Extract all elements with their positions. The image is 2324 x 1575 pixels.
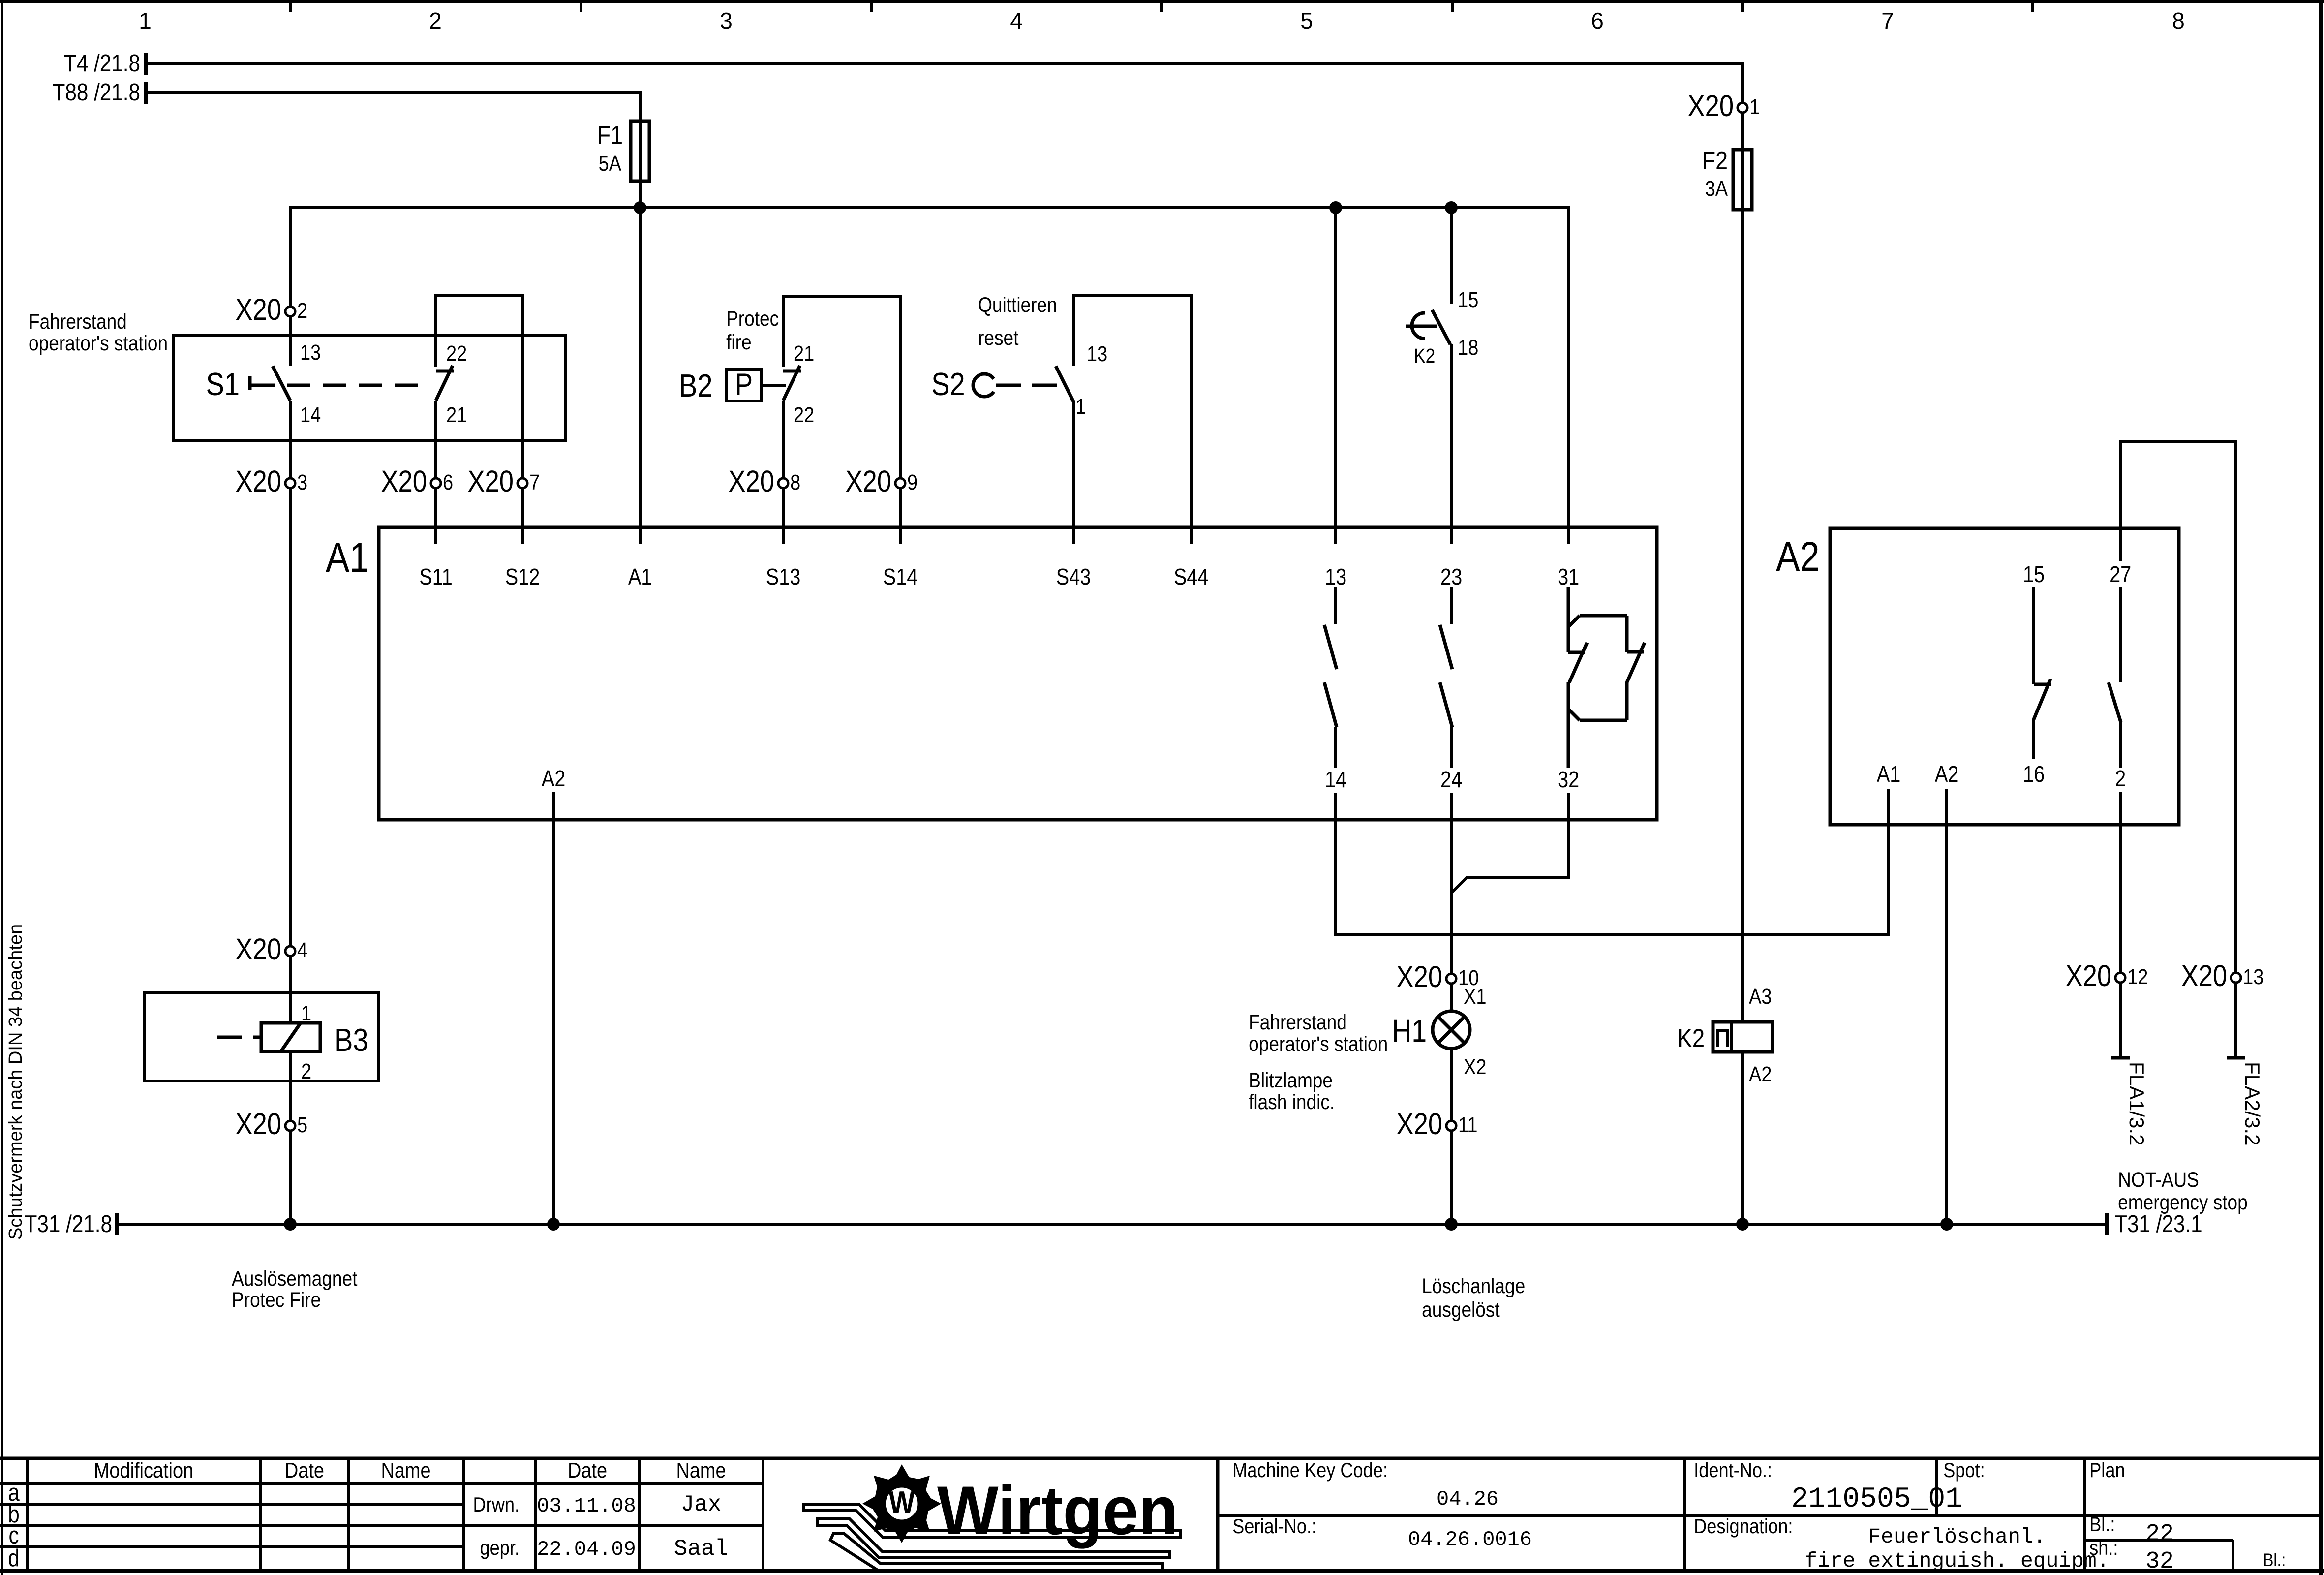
svg-text:13: 13 [1325, 564, 1346, 589]
K2 NC contact 15/18 lead from bus [1450, 214, 1453, 304]
svg-text:2: 2 [297, 298, 307, 322]
svg-text:Protec Fire: Protec Fire [232, 1288, 321, 1311]
svg-text:23: 23 [1440, 564, 1462, 589]
A1 internal contact 13/14 [1324, 587, 1337, 768]
wire X20:2 to S1 contact [289, 317, 292, 366]
svg-text:X20: X20 [1397, 960, 1443, 994]
wire S1 NC contact to X20:6 [434, 401, 437, 477]
wire X20:4 to B3 [289, 957, 292, 1023]
svg-text:11: 11 [1458, 1112, 1477, 1137]
svg-text:8: 8 [790, 470, 800, 494]
svg-text:A2: A2 [1935, 762, 1959, 787]
page border top [0, 0, 2324, 3]
page border bottom [0, 1569, 2324, 1573]
A1 internal changeover contact 31/32 [1568, 587, 1645, 768]
svg-text:FLA1/3.2: FLA1/3.2 [2125, 1062, 2148, 1145]
wire T4 down to X20:1 [1741, 62, 1744, 102]
svg-text:sh.:: sh.: [2089, 1537, 2118, 1560]
svg-text:04.26.0016: 04.26.0016 [1408, 1528, 1532, 1551]
net T4 terminal tick [144, 53, 148, 75]
S1 NO contact blade [273, 366, 290, 401]
svg-text:S13: S13 [766, 564, 801, 589]
wire X20:6 to A1 S11 [434, 489, 437, 544]
svg-text:Date: Date [285, 1458, 324, 1482]
svg-text:W: W [889, 1484, 916, 1520]
svg-text:24: 24 [1440, 767, 1462, 792]
svg-text:Date: Date [568, 1458, 607, 1482]
svg-text:A2: A2 [1749, 1062, 1772, 1086]
svg-text:flash indic.: flash indic. [1249, 1090, 1335, 1113]
junction dot A2/T31 [547, 1218, 560, 1231]
svg-text:Löschanlage: Löschanlage [1422, 1274, 1525, 1297]
svg-text:Spot:: Spot: [1943, 1459, 1985, 1482]
svg-text:21: 21 [794, 341, 814, 365]
svg-text:Feuerlöschanl.: Feuerlöschanl. [1868, 1525, 2046, 1549]
svg-text:X2: X2 [1464, 1054, 1486, 1079]
junction dot F1/bus [634, 201, 646, 214]
svg-text:13: 13 [1087, 341, 1107, 366]
svg-text:K2: K2 [1414, 345, 1435, 368]
svg-text:A1: A1 [326, 534, 369, 581]
K2 contact actuator line [1406, 325, 1437, 328]
svg-text:S44: S44 [1174, 564, 1209, 589]
wire T88 down to F1 [639, 91, 642, 208]
wire X20:8 to A1 S13 [782, 489, 785, 544]
svg-text:27: 27 [2110, 562, 2131, 587]
svg-text:Fahrerstand: Fahrerstand [1249, 1010, 1347, 1034]
svg-text:21: 21 [446, 402, 467, 427]
svg-text:B3: B3 [335, 1022, 368, 1058]
svg-text:X20: X20 [1688, 89, 1734, 123]
svg-text:A2: A2 [542, 766, 566, 791]
solenoid B3 enclosure box [144, 993, 378, 1081]
svg-text:NOT-AUS: NOT-AUS [2118, 1168, 2199, 1191]
svg-text:22.04.09: 22.04.09 [537, 1538, 636, 1561]
svg-text:A1: A1 [628, 564, 652, 589]
wire X20:5 to T31 bus [289, 1132, 292, 1224]
svg-text:Wirtgen: Wirtgen [937, 1472, 1178, 1549]
junction dot B3/T31 [284, 1218, 297, 1231]
svg-text:gepr.: gepr. [480, 1537, 520, 1560]
svg-text:ausgelöst: ausgelöst [1422, 1297, 1500, 1321]
svg-text:1: 1 [1749, 94, 1760, 119]
wire T4 rail [146, 62, 1743, 65]
switch S1 enclosure box [173, 336, 566, 440]
svg-text:reset: reset [978, 326, 1018, 349]
wire bus down to X20:2 [289, 206, 292, 306]
svg-text:16: 16 [2023, 762, 2045, 787]
svg-text:T31 /23.1: T31 /23.1 [2114, 1210, 2202, 1237]
svg-text:B2: B2 [679, 368, 713, 403]
wire bus to contact 13 column [1334, 208, 1337, 544]
wire S1 contact to X20:3 [289, 401, 292, 477]
svg-text:Name: Name [676, 1458, 726, 1482]
svg-text:F1: F1 [597, 121, 623, 150]
svg-text:7: 7 [1881, 8, 1894, 33]
svg-text:8: 8 [2172, 8, 2185, 33]
svg-text:S12: S12 [505, 564, 540, 589]
FLA1 end bar [2111, 1056, 2130, 1060]
wire B2 contact to X20:8 [782, 401, 785, 477]
svg-text:04.26: 04.26 [1437, 1487, 1498, 1511]
svg-text:X20: X20 [381, 464, 427, 498]
svg-text:Name: Name [381, 1458, 430, 1482]
A2 internal NC contact 15/16 [2034, 587, 2051, 759]
wire 32 inside box [1567, 793, 1570, 820]
S2 actuator head arc [973, 374, 994, 397]
junction dot bus/contact23 column [1445, 201, 1458, 214]
svg-text:Blitzlampe: Blitzlampe [1249, 1068, 1333, 1092]
svg-text:X20: X20 [235, 932, 281, 966]
wire X20:13 to FLA2 [2234, 984, 2237, 1057]
svg-text:d: d [8, 1544, 19, 1572]
svg-text:Machine Key Code:: Machine Key Code: [1232, 1459, 1388, 1482]
S1 actuator T-bar [248, 376, 252, 390]
wire F2 down to K2 coil [1741, 210, 1744, 1022]
junction dot H1/T31 [1445, 1218, 1458, 1231]
wire K2 coil to T31 [1741, 1052, 1744, 1224]
B2 link line [761, 384, 786, 387]
wire X20:10 to lamp H1 [1450, 985, 1453, 1012]
svg-text:F2: F2 [1702, 147, 1728, 175]
svg-text:1: 1 [1075, 394, 1086, 418]
wire A2 coil A2 down to T31 [1945, 789, 1948, 1224]
svg-text:T31 /21.8: T31 /21.8 [25, 1210, 112, 1237]
svg-text:22: 22 [794, 402, 814, 427]
wire X20:11 to T31 [1450, 1132, 1453, 1224]
svg-text:X20: X20 [467, 464, 514, 498]
svg-text:H1: H1 [1392, 1013, 1427, 1049]
fuse F1 [631, 121, 649, 181]
net T31 left terminal tick [115, 1213, 119, 1235]
svg-text:X20: X20 [235, 1107, 281, 1141]
wire main top bus [290, 206, 1568, 209]
B2 NC contact fixed tick [783, 370, 801, 373]
S1 NC contact fixed tick [436, 370, 454, 373]
Wirtgen logo gear [862, 1464, 941, 1543]
relay coil K2 [1713, 1022, 1773, 1052]
svg-text:X20: X20 [235, 293, 281, 327]
svg-text:Protec: Protec [726, 307, 779, 330]
svg-text:22: 22 [446, 341, 467, 365]
wire bus right end down to A1 terminal 31 [1567, 206, 1570, 544]
svg-text:32: 32 [1558, 767, 1579, 792]
wire X20:1 to F2 [1741, 114, 1744, 210]
wire 27 loop above box [2120, 441, 2236, 972]
title block grid [0, 1458, 2319, 1571]
fuse F2 [1733, 150, 1752, 210]
B2 NC contact blade [783, 366, 800, 401]
column ruler ticks [289, 3, 2034, 12]
svg-text:Bl.:: Bl.: [2263, 1550, 2286, 1571]
B3 coil symbol [261, 1023, 320, 1051]
wire 24 column down to X20:10 [1450, 820, 1453, 973]
svg-text:Auslösemagnet: Auslösemagnet [232, 1266, 357, 1290]
pushbutton S2 loop wire [1073, 296, 1191, 544]
svg-text:1: 1 [139, 8, 152, 33]
svg-text:Quittieren: Quittieren [978, 293, 1057, 316]
svg-text:14: 14 [1325, 767, 1346, 792]
wire S2 contact to A1 S43 [1072, 401, 1075, 544]
junction dot K2/T31 [1736, 1218, 1749, 1231]
S2 NO contact blade [1056, 366, 1073, 401]
svg-text:S11: S11 [419, 564, 453, 589]
wire 14 inside box [1334, 793, 1337, 820]
svg-text:Plan: Plan [2089, 1459, 2125, 1482]
safety relay A1 box [379, 527, 1657, 820]
svg-text:S43: S43 [1056, 564, 1091, 589]
S1 actuator dashed link [251, 384, 424, 387]
junction dot A2coil/T31 [1940, 1218, 1953, 1231]
svg-text:T4 /21.8: T4 /21.8 [64, 50, 140, 77]
S1 NC contact blade [436, 366, 453, 401]
svg-text:X20: X20 [728, 464, 774, 498]
svg-text:Fahrerstand: Fahrerstand [29, 309, 127, 333]
svg-text:S1: S1 [206, 366, 240, 402]
B3 actuator dashes [217, 1036, 261, 1039]
wire T31 rail [117, 1223, 2107, 1226]
svg-text:2: 2 [2115, 766, 2126, 791]
svg-text:14: 14 [300, 402, 321, 427]
svg-text:X20: X20 [845, 464, 891, 498]
svg-text:Serial-No.:: Serial-No.: [1232, 1515, 1316, 1538]
svg-text:2: 2 [429, 8, 442, 33]
wire H1 to X20:11 [1450, 1049, 1453, 1120]
wire 14 down and across to A2 terminal A1 [1336, 789, 1889, 935]
svg-text:X20: X20 [2181, 959, 2228, 993]
svg-text:6: 6 [1591, 8, 1604, 33]
FLA2 end bar [2227, 1056, 2245, 1060]
svg-text:operator's station: operator's station [29, 331, 168, 355]
junction dot bus/contact13 column [1329, 201, 1342, 214]
svg-text:Bl.:: Bl.: [2089, 1513, 2115, 1536]
svg-text:P: P [735, 368, 753, 402]
svg-text:Ident-No.:: Ident-No.: [1694, 1459, 1772, 1482]
svg-text:13: 13 [2243, 964, 2263, 988]
svg-text:3A: 3A [1705, 176, 1728, 200]
svg-text:3: 3 [297, 470, 307, 494]
svg-text:2110505_01: 2110505_01 [1791, 1483, 1962, 1515]
wire T88 rail [146, 91, 640, 94]
K2 contact blade [1432, 310, 1450, 344]
svg-text:4: 4 [1010, 8, 1023, 33]
svg-text:15: 15 [1458, 287, 1478, 311]
svg-text:A1: A1 [1877, 762, 1901, 787]
svg-text:S14: S14 [883, 564, 918, 589]
wire X20:7 to A1 S12 [521, 489, 524, 544]
wire 24 inside box [1450, 793, 1453, 820]
svg-text:operator's station: operator's station [1249, 1032, 1388, 1055]
svg-text:5: 5 [1300, 8, 1313, 33]
page border right [2319, 0, 2323, 1575]
svg-text:4: 4 [297, 938, 307, 962]
wire X20:9 to A1 S14 [899, 489, 902, 544]
wire F1 to A1 terminal A1 [639, 208, 642, 544]
svg-text:Schutzvermerk nach DIN 34 beac: Schutzvermerk nach DIN 34 beachten [5, 924, 26, 1240]
svg-text:7: 7 [529, 470, 540, 494]
wire B3 to X20:5 [289, 1051, 292, 1120]
wire contact 2 down to X20:12 [2119, 792, 2122, 972]
svg-text:fire extinguish. equipm.: fire extinguish. equipm. [1804, 1549, 2109, 1573]
svg-text:32: 32 [2145, 1548, 2174, 1575]
svg-text:A3: A3 [1749, 984, 1772, 1008]
wire 32 jog to 24 column [1452, 820, 1568, 892]
svg-text:22: 22 [2145, 1521, 2174, 1547]
svg-text:S2: S2 [931, 366, 965, 402]
svg-text:2: 2 [301, 1059, 311, 1083]
flasher relay A2 box [1830, 528, 2179, 825]
svg-text:X20: X20 [1397, 1107, 1443, 1141]
svg-text:6: 6 [443, 470, 453, 494]
svg-text:fire: fire [726, 330, 751, 354]
K2 contact actuator arc [1412, 313, 1425, 339]
A1 internal contact 23/24 [1440, 587, 1452, 768]
svg-text:Jax: Jax [681, 1492, 722, 1517]
Wirtgen logo swoosh stripes [804, 1504, 1181, 1570]
wire X20:12 to FLA1 [2119, 984, 2122, 1057]
svg-text:K2: K2 [1677, 1024, 1705, 1053]
A2 internal NO contact 27/2 [2109, 587, 2121, 768]
wire K2 contact to A1 terminal 23 [1450, 344, 1453, 544]
svg-text:18: 18 [1458, 335, 1478, 359]
wire X20:3 down to X20:4 [289, 489, 292, 945]
svg-text:3: 3 [720, 8, 733, 33]
svg-text:Drwn.: Drwn. [473, 1494, 520, 1516]
column reference numbers 1-8 [139, 8, 2185, 33]
svg-text:Modification: Modification [94, 1458, 193, 1482]
B2 P sensor box [726, 370, 761, 401]
S1 NC contact 22/21 loop wire [436, 296, 522, 477]
wire A1 terminal A2 down to T31 [552, 792, 555, 1224]
svg-text:T88 /21.8: T88 /21.8 [53, 79, 140, 106]
svg-text:31: 31 [1558, 564, 1579, 589]
svg-text:13: 13 [300, 340, 321, 364]
svg-text:5: 5 [297, 1112, 307, 1137]
svg-text:FLA2/3.2: FLA2/3.2 [2241, 1062, 2264, 1145]
svg-text:X20: X20 [2066, 959, 2112, 993]
svg-text:A2: A2 [1776, 533, 1820, 580]
svg-text:9: 9 [907, 470, 917, 494]
svg-text:5A: 5A [599, 151, 622, 175]
lamp H1 [1433, 1011, 1470, 1049]
svg-text:03.11.08: 03.11.08 [537, 1494, 636, 1518]
net T31 right terminal tick [2105, 1213, 2109, 1235]
net T88 terminal tick [144, 82, 148, 104]
svg-text:12: 12 [2127, 964, 2148, 988]
S2 actuator link [996, 384, 1021, 387]
svg-text:15: 15 [2023, 562, 2045, 587]
svg-text:X1: X1 [1464, 984, 1486, 1008]
svg-text:Saal: Saal [674, 1536, 728, 1562]
svg-text:X20: X20 [235, 464, 281, 498]
page border left [1, 0, 3, 1575]
pressure switch B2 loop wire [783, 296, 900, 477]
svg-text:Designation:: Designation: [1694, 1515, 1793, 1538]
